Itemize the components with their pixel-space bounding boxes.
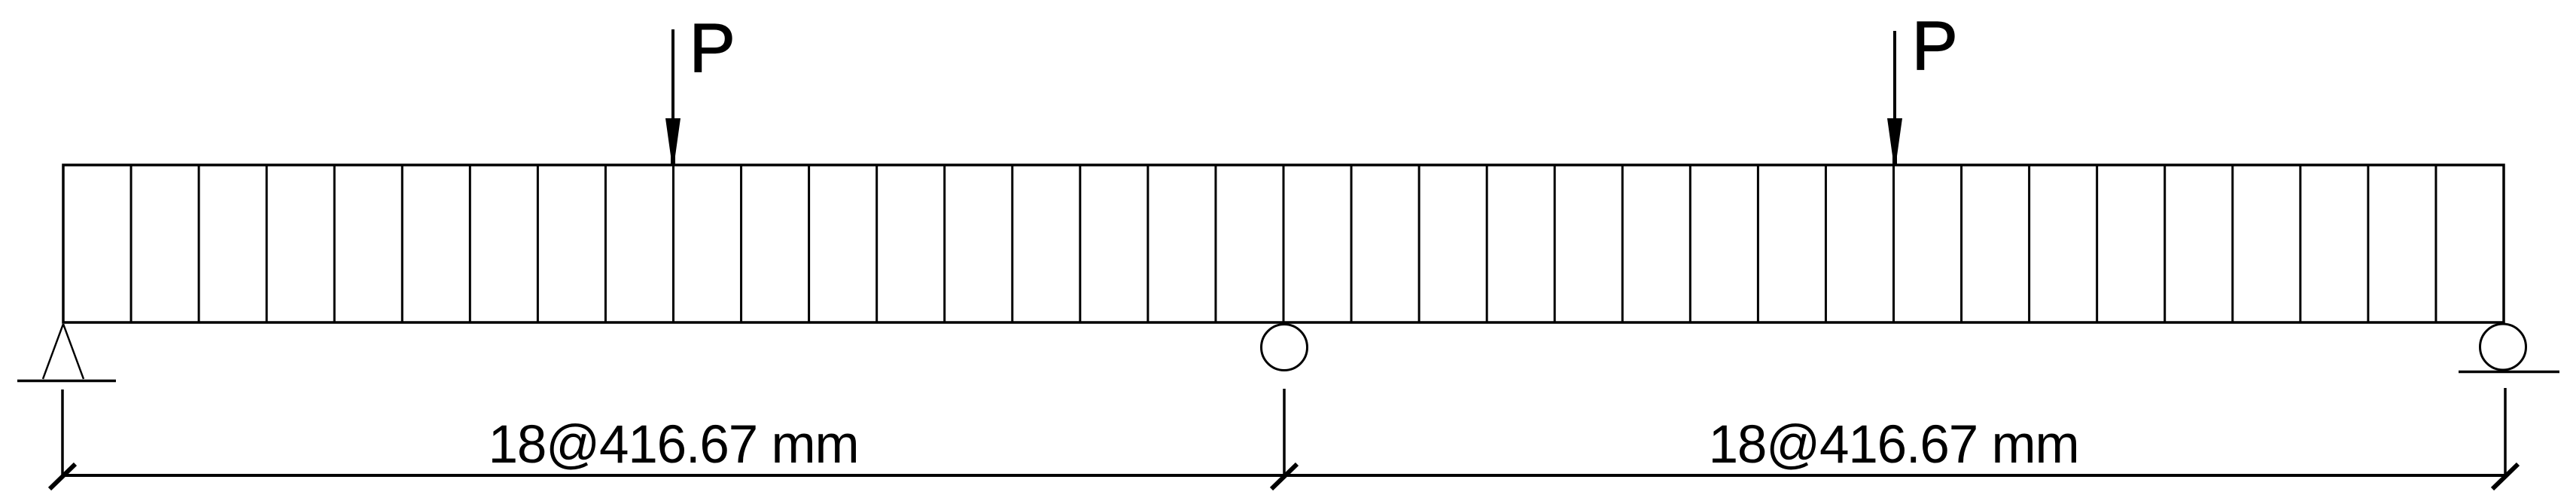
- svg-text:18@416.67 mm: 18@416.67 mm: [489, 415, 859, 475]
- svg-text:P: P: [690, 10, 735, 87]
- svg-text:P: P: [1912, 8, 1958, 84]
- svg-text:18@416.67 mm: 18@416.67 mm: [1709, 415, 2079, 475]
